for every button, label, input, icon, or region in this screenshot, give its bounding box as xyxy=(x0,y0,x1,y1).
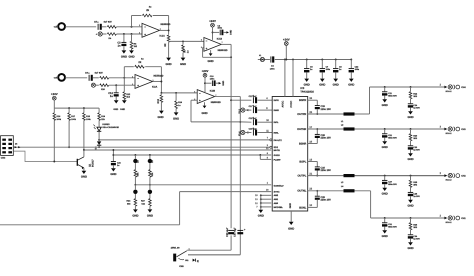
svg-text:INPL: INPL xyxy=(274,121,280,124)
svg-text:JR1: JR1 xyxy=(185,259,188,262)
svg-text:6: 6 xyxy=(194,91,195,94)
svg-text:GND: GND xyxy=(230,30,233,35)
svg-text:SDZ: SDZ xyxy=(274,146,279,149)
svg-text:CN3: CN3 xyxy=(1,157,6,160)
svg-text:+: + xyxy=(199,99,201,103)
svg-text:PLIMIT: PLIMIT xyxy=(274,158,282,161)
svg-text:TPA3116D2: TPA3116D2 xyxy=(300,91,314,94)
svg-text:GND: GND xyxy=(201,112,207,115)
svg-text:GVDD: GVDD xyxy=(274,154,281,157)
svg-text:GND: GND xyxy=(258,215,264,218)
svg-text:GND: GND xyxy=(120,108,125,111)
svg-text:GND: GND xyxy=(288,227,294,230)
svg-text:GND: GND xyxy=(407,205,413,208)
svg-text:AM2: AM2 xyxy=(274,194,279,197)
svg-text:AM1: AM1 xyxy=(274,198,279,201)
svg-text:GND: GND xyxy=(382,146,388,149)
svg-text:NE5532D: NE5532D xyxy=(161,23,171,26)
svg-text:680n 50V: 680n 50V xyxy=(388,226,397,229)
svg-text:GND: GND xyxy=(113,108,118,111)
svg-text:100n: 100n xyxy=(355,68,360,71)
svg-text:−: − xyxy=(137,76,139,80)
svg-text:BSNL: BSNL xyxy=(299,206,306,209)
svg-text:OUTPL: OUTPL xyxy=(298,175,307,178)
svg-text:D1/RE3: D1/RE3 xyxy=(102,123,110,126)
svg-text:220n 25V: 220n 25V xyxy=(321,108,332,111)
svg-text:GND: GND xyxy=(110,173,116,176)
svg-text:GND: GND xyxy=(173,118,179,121)
svg-text:GND: GND xyxy=(319,83,325,86)
svg-text:0R: 0R xyxy=(164,43,167,46)
svg-text:RCA-2: RCA-2 xyxy=(446,90,452,93)
svg-text:FAULTZ: FAULTZ xyxy=(274,139,283,142)
svg-text:1n 50V: 1n 50V xyxy=(413,107,420,110)
svg-text:NE5532D: NE5532D xyxy=(218,49,228,52)
svg-text:100n: 100n xyxy=(218,27,223,30)
svg-text:680n 50V: 680n 50V xyxy=(388,95,397,98)
svg-text:−: − xyxy=(206,39,208,43)
svg-text:PVCC: PVCC xyxy=(290,100,293,107)
svg-text:INNL: INNL xyxy=(274,131,280,134)
svg-text:1: 1 xyxy=(160,28,161,31)
svg-text:+: + xyxy=(137,84,139,88)
svg-text:+24V: +24V xyxy=(202,69,209,73)
svg-text:4u7 63V: 4u7 63V xyxy=(104,21,113,24)
svg-text:GND: GND xyxy=(382,193,388,196)
svg-text:GND: GND xyxy=(382,235,388,238)
svg-text:C19 4u7: C19 4u7 xyxy=(249,127,258,130)
svg-text:220n 25V: 220n 25V xyxy=(321,169,332,172)
svg-text:GND: GND xyxy=(222,80,225,85)
svg-text:OUTPR: OUTPR xyxy=(297,113,306,116)
svg-text:GND: GND xyxy=(289,203,292,209)
svg-text:CN8: CN8 xyxy=(179,265,184,268)
svg-text:MODSEL: MODSEL xyxy=(274,206,284,209)
svg-text:GND: GND xyxy=(208,60,214,63)
svg-text:GND: GND xyxy=(407,158,413,161)
svg-text:7: 7 xyxy=(215,94,216,97)
svg-text:5: 5 xyxy=(201,46,202,49)
svg-text:IC2B: IC2B xyxy=(210,90,216,93)
svg-text:IC2A: IC2A xyxy=(152,86,158,89)
svg-text:3: 3 xyxy=(132,83,133,86)
svg-text:AVCC: AVCC xyxy=(282,101,285,108)
svg-text:SSA-CXH24ROID: SSA-CXH24ROID xyxy=(102,126,119,129)
svg-text:1u: 1u xyxy=(110,95,113,98)
svg-text:CH2: CH2 xyxy=(461,175,466,178)
svg-text:CH4: CH4 xyxy=(461,86,466,89)
svg-text:+: + xyxy=(206,46,208,50)
svg-text:GND: GND xyxy=(348,83,354,86)
svg-text:GAIN/SLV: GAIN/SLV xyxy=(274,185,285,188)
svg-text:GND: GND xyxy=(147,214,153,217)
svg-text:C25 4u7: C25 4u7 xyxy=(226,227,229,237)
svg-text:NE5532D: NE5532D xyxy=(211,101,221,104)
svg-text:2: 2 xyxy=(132,75,133,78)
svg-text:+24V: +24V xyxy=(51,92,58,96)
svg-text:3: 3 xyxy=(139,32,140,35)
svg-text:GND: GND xyxy=(407,247,413,250)
svg-text:GND: GND xyxy=(407,116,413,119)
svg-text:OUTNL: OUTNL xyxy=(297,190,306,193)
svg-text:GND: GND xyxy=(166,63,172,66)
svg-text:4u7 63V: 4u7 63V xyxy=(95,72,104,75)
svg-text:RCA-2: RCA-2 xyxy=(446,221,452,224)
svg-text:GND: GND xyxy=(382,104,388,107)
svg-text:GND: GND xyxy=(333,83,339,86)
svg-text:INPR: INPR xyxy=(274,99,280,102)
svg-text:BSPL: BSPL xyxy=(299,160,306,163)
svg-text:NE5532D: NE5532D xyxy=(154,74,164,77)
svg-text:6: 6 xyxy=(201,39,202,42)
svg-text:MUTE: MUTE xyxy=(274,149,281,152)
svg-text:GND: GND xyxy=(121,56,127,59)
svg-text:RCA-2: RCA-2 xyxy=(446,179,452,182)
svg-text:GND: GND xyxy=(180,63,186,66)
svg-text:INNR: INNR xyxy=(274,109,280,112)
svg-text:1n 50V: 1n 50V xyxy=(413,149,420,152)
svg-text:CH3: CH3 xyxy=(461,128,466,131)
svg-text:+: + xyxy=(144,32,146,36)
svg-text:BC817: BC817 xyxy=(92,159,95,167)
svg-text:C17 4u7: C17 4u7 xyxy=(249,105,258,108)
svg-text:C18 4u7: C18 4u7 xyxy=(249,117,258,120)
svg-text:680n 50V: 680n 50V xyxy=(388,137,397,140)
svg-text:1n 50V: 1n 50V xyxy=(413,195,420,198)
svg-text:C13 4u7: C13 4u7 xyxy=(249,95,258,98)
svg-text:7: 7 xyxy=(222,41,223,44)
svg-text:R15: R15 xyxy=(157,98,160,103)
svg-text:100n: 100n xyxy=(326,68,331,71)
svg-text:D5: D5 xyxy=(15,143,17,146)
svg-text:RCA-2: RCA-2 xyxy=(446,132,452,135)
svg-text:CH1: CH1 xyxy=(461,217,466,220)
svg-text:OUTNR: OUTNR xyxy=(297,128,306,131)
svg-text:+24V: +24V xyxy=(283,37,290,41)
svg-text:100n: 100n xyxy=(210,78,215,81)
svg-text:GND: GND xyxy=(81,175,87,178)
svg-text:15R5_09: 15R5_09 xyxy=(171,246,181,249)
svg-text:1n 50V: 1n 50V xyxy=(413,238,420,241)
svg-text:680n 50V: 680n 50V xyxy=(388,183,397,186)
svg-text:GND: GND xyxy=(157,116,163,119)
svg-text:220n 25V: 220n 25V xyxy=(321,198,332,201)
svg-text:BSPR: BSPR xyxy=(299,99,306,102)
svg-text:−: − xyxy=(199,91,201,95)
svg-text:IC1A: IC1A xyxy=(160,34,166,37)
svg-text:IC1B: IC1B xyxy=(217,38,223,41)
svg-text:IC3: IC3 xyxy=(300,87,305,90)
svg-text:2: 2 xyxy=(139,24,140,27)
svg-text:GND: GND xyxy=(132,214,138,217)
svg-text:5: 5 xyxy=(194,98,195,101)
svg-text:C30 4u7: C30 4u7 xyxy=(234,227,237,237)
svg-text:1n: 1n xyxy=(118,44,121,47)
svg-text:SYNC: SYNC xyxy=(274,191,280,194)
svg-text:AM0: AM0 xyxy=(274,202,279,205)
svg-text:GND: GND xyxy=(128,56,134,59)
svg-text:1: 1 xyxy=(153,79,154,82)
svg-text:GND: GND xyxy=(304,83,310,86)
svg-text:−: − xyxy=(144,25,146,29)
svg-text:X1: X1 xyxy=(259,54,261,57)
svg-text:220n 25V: 220n 25V xyxy=(321,137,332,140)
svg-text:100n: 100n xyxy=(270,67,275,70)
svg-text:BSNR: BSNR xyxy=(299,142,306,145)
svg-text:+24V: +24V xyxy=(209,19,216,23)
